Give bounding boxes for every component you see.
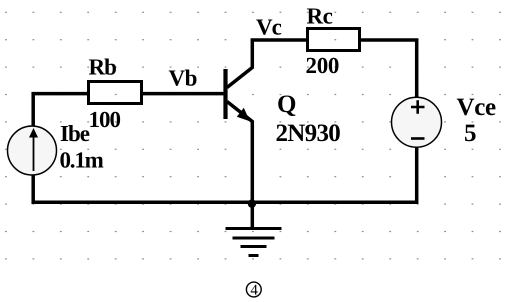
resistor Rb bbox=[89, 82, 142, 104]
junction dot bbox=[248, 199, 256, 207]
svg-text:5: 5 bbox=[464, 120, 477, 147]
svg-text:Vce: Vce bbox=[456, 94, 496, 121]
svg-text:Rc: Rc bbox=[306, 4, 332, 29]
figure number 4 bbox=[246, 282, 261, 297]
transistor Q1 base bar bbox=[223, 69, 227, 119]
transistor Q1 emitter lead bbox=[227, 102, 252, 228]
svg-text:Q: Q bbox=[277, 91, 296, 118]
source Vce bbox=[392, 97, 442, 147]
current arrow bbox=[33, 136, 35, 171]
wire: Rb to base bbox=[143, 92, 224, 96]
wire: Rc to Vce bbox=[361, 40, 417, 97]
source Ibe bbox=[8, 126, 57, 175]
resistor Rc bbox=[308, 29, 360, 51]
transistor Q1 collector lead bbox=[227, 40, 306, 88]
wire: bottom rail bbox=[33, 148, 417, 203]
minus sign bbox=[411, 137, 425, 140]
grid dots bbox=[5, 12, 501, 260]
svg-text:100: 100 bbox=[88, 107, 120, 132]
transistor Q1 emitter arrow bbox=[237, 108, 250, 122]
svg-text:Vc: Vc bbox=[256, 15, 282, 40]
svg-text:200: 200 bbox=[305, 53, 339, 78]
svg-text:Vb: Vb bbox=[168, 66, 196, 91]
svg-text:Ibe: Ibe bbox=[60, 121, 90, 146]
svg-text:Rb: Rb bbox=[88, 55, 116, 80]
svg-text:4: 4 bbox=[250, 283, 258, 299]
plus sign bbox=[411, 100, 425, 114]
svg-text:0.1m: 0.1m bbox=[59, 148, 103, 173]
svg-text:2N930: 2N930 bbox=[275, 120, 340, 147]
wire: left rail top (Ibe top to Rb) bbox=[33, 94, 88, 127]
ground bbox=[226, 229, 282, 256]
